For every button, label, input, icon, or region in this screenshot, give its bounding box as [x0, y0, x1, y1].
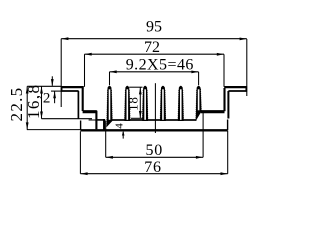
dimension 22.5 arrows — [26, 87, 29, 130]
dimension 50 line — [106, 113, 203, 158]
dimension 72 line — [85, 54, 225, 87]
gap floors — [112, 119, 197, 121]
base bottom — [80, 129, 227, 131]
dimension 9.2X5=46 arrows — [110, 70, 199, 73]
dimension 18 arrows — [139, 87, 142, 118]
svg-text:76: 76 — [144, 159, 162, 176]
dimension 76 line — [80, 131, 227, 174]
centerline — [154, 83, 156, 133]
left wing wall — [78, 88, 82, 119]
dimension 95 line — [61, 39, 247, 107]
svg-text:95: 95 — [146, 19, 162, 36]
left wing top plate — [61, 86, 84, 92]
dimension 18 line — [129, 87, 142, 118]
svg-text:9.2X5=46: 9.2X5=46 — [126, 56, 194, 73]
left shelf — [83, 110, 97, 113]
svg-text:2: 2 — [43, 91, 51, 107]
left slot steps — [96, 111, 104, 130]
dimension 16,8 line — [42, 86, 93, 118]
dimension 50 arrows — [106, 156, 203, 159]
svg-text:72: 72 — [144, 39, 160, 56]
dimension 95 arrows — [61, 37, 246, 40]
svg-text:4: 4 — [114, 123, 126, 129]
dimension 16,8 arrows — [40, 87, 43, 119]
dimension 72 arrows — [85, 53, 224, 56]
base right edge — [227, 120, 229, 131]
fin white cores — [109, 89, 111, 120]
dimension 2 upper arrow — [51, 76, 63, 103]
dimension 9.2X5=46 line — [110, 72, 199, 85]
svg-text:50: 50 — [145, 142, 163, 159]
right wing wall — [225, 88, 229, 119]
dimension 4 — [89, 120, 124, 139]
right wing top plate — [224, 86, 247, 92]
dimension 22.5 line — [27, 86, 81, 129]
fins — [106, 86, 202, 127]
base left edge — [80, 121, 82, 131]
right shelf — [201, 110, 225, 113]
dimension 76 arrows — [81, 172, 228, 175]
svg-text:22.5: 22.5 — [7, 87, 26, 122]
svg-text:16,8: 16,8 — [24, 84, 43, 119]
